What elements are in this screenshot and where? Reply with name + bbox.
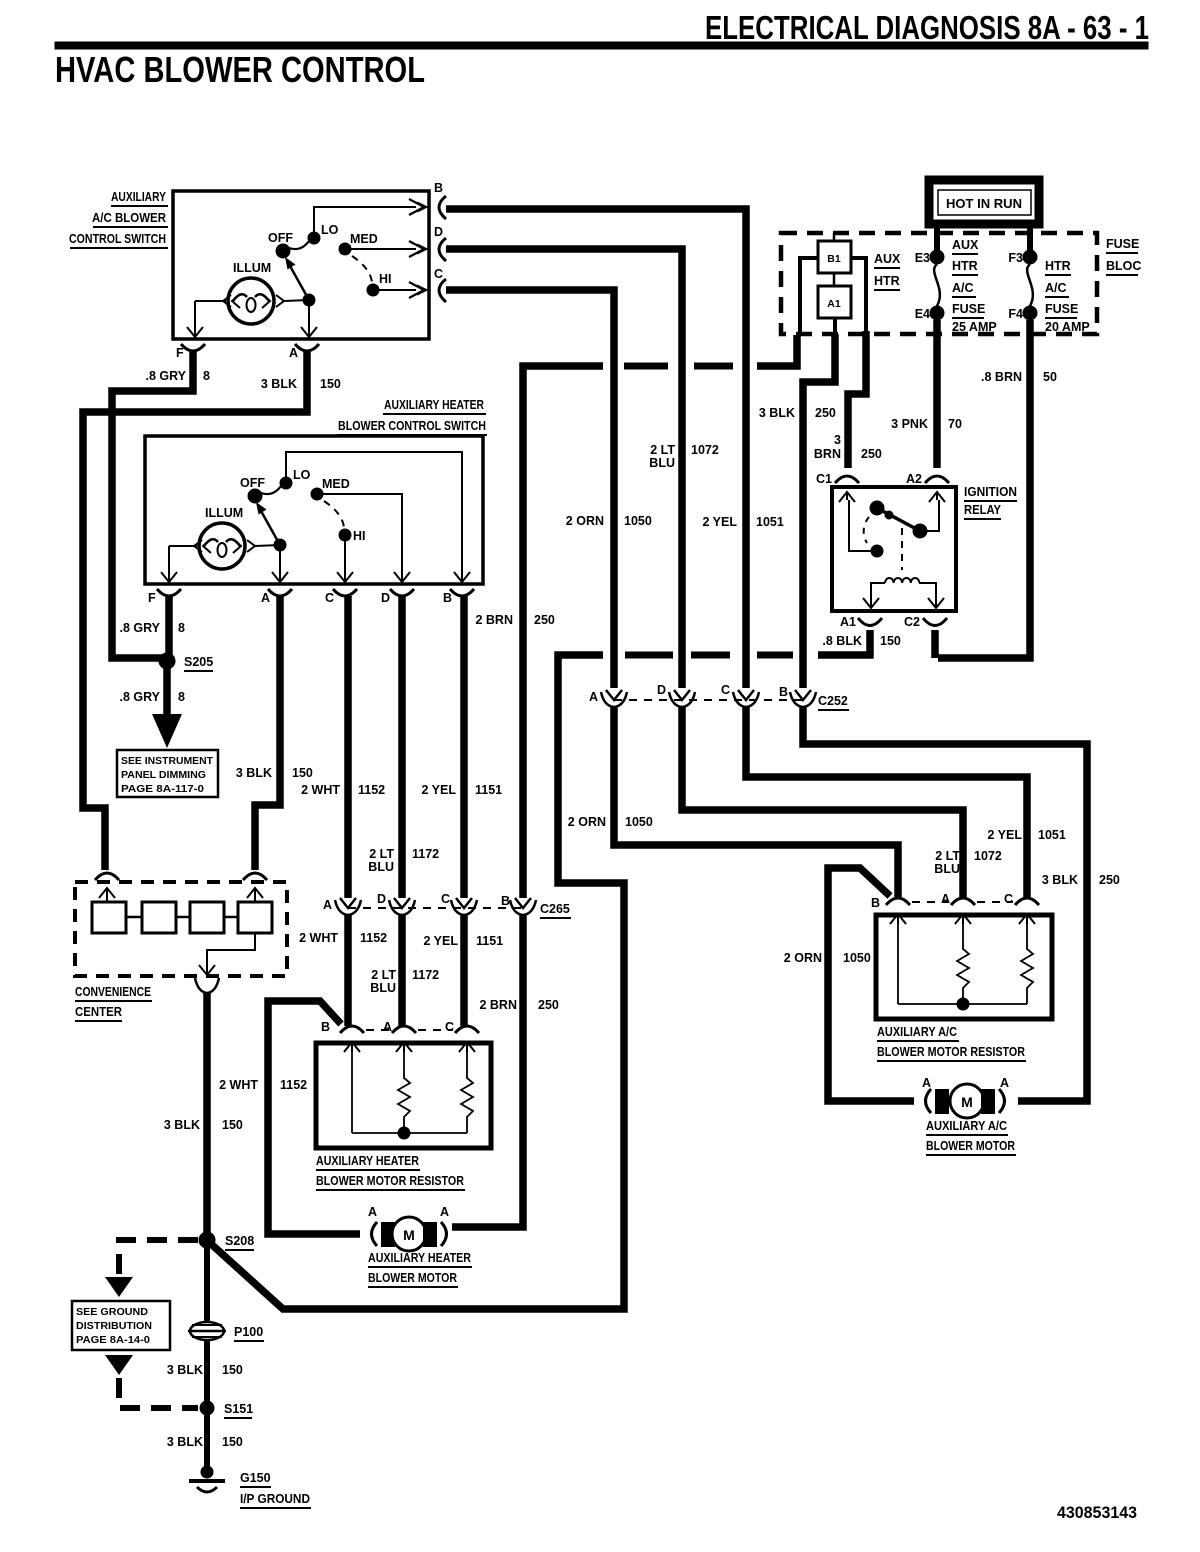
aux A/C resistor element A (zigzag) (957, 924, 969, 1004)
svg-text:.8 GRY: .8 GRY (119, 690, 160, 704)
svg-text:A: A (589, 690, 598, 704)
svg-text:HTR: HTR (952, 259, 978, 273)
svg-text:G150: G150 (240, 1471, 271, 1485)
svg-text:AUXILIARY HEATER: AUXILIARY HEATER (384, 398, 484, 412)
svg-text:C: C (721, 683, 730, 697)
svg-text:3 PNK: 3 PNK (891, 417, 928, 431)
svg-text:2 WHT: 2 WHT (301, 783, 340, 797)
svg-text:2 LT: 2 LT (369, 847, 394, 861)
svg-text:B: B (779, 685, 788, 699)
svg-text:3 BLK: 3 BLK (164, 1118, 200, 1132)
convenience center output lead (195, 933, 255, 993)
svg-text:250: 250 (534, 613, 555, 627)
label 3 BLK 150 (S1 A wire) (261, 377, 341, 391)
svg-text:150: 150 (292, 766, 313, 780)
convenience center dashed box (75, 882, 287, 976)
off-page arrow into ground distribution (105, 1277, 133, 1297)
svg-text:3 BLK: 3 BLK (759, 406, 795, 420)
label 2 ORN 1050 (motor feed) (784, 951, 871, 965)
wire LO to output B (314, 199, 426, 238)
connector C265 pin A (323, 898, 361, 915)
label 2 WHT 1152 (motor feed left) (219, 1078, 307, 1092)
svg-text:3 BLK: 3 BLK (167, 1363, 203, 1377)
svg-text:150: 150 (880, 634, 901, 648)
svg-text:1152: 1152 (358, 783, 385, 797)
connector C252 pin C (721, 683, 759, 707)
svg-text:2 WHT: 2 WHT (299, 931, 338, 945)
svg-text:CENTER: CENTER (75, 1005, 122, 1019)
svg-text:250: 250 (861, 447, 882, 461)
svg-text:AUX: AUX (952, 238, 979, 252)
svg-text:BLOWER MOTOR: BLOWER MOTOR (368, 1271, 457, 1285)
convenience center fuse element 1 (92, 902, 126, 933)
relay pin C2 connector (904, 615, 947, 629)
label 3 BRN 250 (814, 433, 882, 461)
label 2 WHT 1152 (below C265) (299, 931, 387, 945)
svg-text:8: 8 (178, 690, 185, 704)
relay coil (863, 578, 944, 608)
svg-text:A: A (941, 892, 950, 906)
svg-text:SEE GROUND: SEE GROUND (76, 1306, 148, 1318)
ignition relay box (832, 487, 956, 611)
wiper pivot junction (heater switch) (274, 539, 286, 551)
svg-text:AUXILIARY: AUXILIARY (111, 190, 167, 204)
wire branch aux A/C blower motor feed (2 ORN 1050) (828, 868, 914, 1101)
svg-text:A: A (440, 1205, 449, 1219)
aux A/C resistor element C (zigzag) (1021, 924, 1033, 1004)
aux A/C resistor pin C connector (1004, 892, 1039, 924)
svg-text:A: A (261, 591, 270, 605)
connector C252 pin D (657, 683, 695, 707)
grommet P100 (188, 1322, 264, 1341)
wiper arm arrow to OFF (heater switch) (256, 502, 280, 545)
part number 430853143 (1057, 1503, 1137, 1522)
svg-text:D: D (657, 683, 666, 697)
label 2 WHT 1152 (above C265) (301, 783, 385, 797)
svg-text:2 YEL: 2 YEL (702, 515, 737, 529)
relay dashed throw arc (864, 517, 869, 543)
wire HOT IN RUN to F3 (1027, 225, 1033, 252)
label 2 BRN 250 (below C265) (479, 998, 558, 1012)
heater resistor pin A connector (383, 1020, 416, 1052)
relay pin A2 connector (906, 472, 949, 502)
svg-text:1151: 1151 (475, 783, 502, 797)
svg-text:C: C (434, 267, 443, 281)
power feed HOT IN RUN box (929, 180, 1039, 224)
connector C252 dashed row (614, 694, 849, 710)
label 2 YEL 1151 (above C265) (421, 783, 502, 797)
svg-text:FUSE: FUSE (1045, 302, 1078, 316)
heater resistor pin B connector (321, 1020, 364, 1052)
wire C252-C to aux A/C resistor C (2 YEL 1051) (746, 707, 1027, 898)
heater resistor element B lead (351, 1052, 353, 1133)
wire LO to pin B (heater switch) (286, 452, 470, 584)
svg-text:AUX: AUX (874, 252, 901, 266)
connector C265 dashed row (348, 902, 571, 918)
svg-text:150: 150 (222, 1118, 243, 1132)
label .8 GRY 8 (heater F wire) (119, 621, 185, 635)
pin F arrow (aux A/C switch) (187, 327, 203, 339)
label 2 YEL 1051 (right) (987, 828, 1065, 842)
wire S208 to G150 (3 BLK 150) (204, 1240, 210, 1470)
lamp left lead wire (195, 295, 231, 330)
splice S151 (200, 1401, 253, 1418)
relay pin C1 connector (816, 472, 859, 502)
relay internal fixed contact from C1 (849, 500, 883, 557)
switch S1 label AUXILIARY A/C BLOWER CONTROL SWITCH (69, 190, 168, 248)
svg-text:ELECTRICAL DIAGNOSIS 8A - 63 -: ELECTRICAL DIAGNOSIS 8A - 63 - 1 (705, 9, 1149, 46)
svg-text:250: 250 (538, 998, 559, 1012)
wire convenience center to S208 (3 BLK 150) (203, 993, 211, 1240)
aux A/C resistor element B lead (897, 924, 899, 1004)
wire relay A1 ground (.8 BLK 150) dashed to S208 drop (210, 630, 870, 1309)
svg-text:M: M (961, 1094, 973, 1110)
svg-text:HTR: HTR (874, 274, 900, 288)
svg-text:3: 3 (834, 433, 841, 447)
svg-text:1152: 1152 (280, 1078, 307, 1092)
svg-text:FUSE: FUSE (1106, 237, 1139, 251)
svg-text:BLOC: BLOC (1106, 259, 1141, 273)
svg-text:BLOWER MOTOR RESISTOR: BLOWER MOTOR RESISTOR (877, 1045, 1025, 1059)
svg-text:C265: C265 (540, 902, 570, 916)
svg-text:1050: 1050 (843, 951, 871, 965)
svg-text:A: A (383, 1020, 392, 1034)
svg-text:MED: MED (322, 477, 350, 491)
wire C252-B to aux A/C motor return (3 BLK 250) (803, 707, 1087, 1101)
connector C265 pin D (377, 892, 415, 915)
wire C265-A to heater resistor B (2 WHT 1152) (344, 915, 352, 1026)
convenience center fuse element 3 (190, 902, 224, 933)
svg-text:PAGE 8A-117-0: PAGE 8A-117-0 (121, 783, 204, 795)
svg-text:B: B (871, 896, 880, 910)
wire A of S1 to convenience center (3 BLK 150) (83, 352, 307, 870)
B1 left stub into dashed ground wire (800, 258, 818, 333)
switch U1 aux A/C blower control switch box (173, 191, 429, 339)
wire HI to pin C (heater switch) (337, 535, 353, 584)
wire B of S1 to C252-C (2 YEL 1051) (446, 209, 746, 688)
fuse F3-F4 HTR A/C FUSE 20 AMP (1008, 250, 1089, 334)
aux A/C blower motor (922, 1076, 1009, 1118)
wire B1 to 2 BRN 250 drop (dashed run) (523, 335, 797, 898)
wire B of heater switch to C265-C (2 YEL 1151) (460, 596, 468, 898)
detent curve OFF-LO (289, 241, 309, 249)
connector C252 pin A (589, 690, 627, 707)
svg-text:BRN: BRN (814, 447, 841, 461)
svg-text:BLU: BLU (649, 456, 675, 470)
svg-text:.8 GRY: .8 GRY (119, 621, 160, 635)
fuse block dashed enclosure (781, 233, 1097, 334)
svg-text:70: 70 (948, 417, 962, 431)
label FUSE BLOC (1106, 237, 1141, 275)
wire C252-D to aux A/C resistor A (2 LT BLU 1072) (682, 707, 963, 898)
wire HOT IN RUN to E3 (934, 225, 940, 252)
svg-text:M: M (403, 1227, 415, 1243)
svg-text:HI: HI (353, 529, 366, 543)
contact HI (heater switch) (339, 529, 366, 543)
label 3 BLK 150 (heater A wire) (236, 766, 313, 780)
svg-text:1172: 1172 (412, 968, 439, 982)
wire D of S1 to C252-D (2 LT BLU 1072) (446, 249, 682, 688)
svg-text:2 ORN: 2 ORN (784, 951, 822, 965)
pin A connector (heater switch) (261, 589, 292, 605)
label 3 BLK 150 (S151-G150) (167, 1435, 243, 1449)
svg-text:20 AMP: 20 AMP (1045, 320, 1090, 334)
label .8 BLK 150 (relay A1 wire) (822, 634, 900, 648)
svg-text:B: B (443, 591, 452, 605)
svg-text:.8 GRY: .8 GRY (145, 369, 186, 383)
svg-text:BLOWER MOTOR RESISTOR: BLOWER MOTOR RESISTOR (316, 1174, 464, 1188)
svg-text:E3: E3 (915, 251, 930, 265)
label IGNITION RELAY (964, 485, 1017, 519)
svg-text:1152: 1152 (360, 931, 387, 945)
svg-text:BLU: BLU (934, 862, 960, 876)
svg-text:S151: S151 (224, 1402, 253, 1416)
link B1-A1 (833, 233, 836, 286)
svg-text:OFF: OFF (268, 231, 293, 245)
svg-text:A/C: A/C (1045, 281, 1067, 295)
svg-text:250: 250 (1099, 873, 1120, 887)
svg-text:BLOWER MOTOR: BLOWER MOTOR (926, 1139, 1015, 1153)
svg-text:150: 150 (320, 377, 341, 391)
contact HI (aux A/C switch) (367, 272, 392, 296)
svg-text:2 YEL: 2 YEL (423, 934, 458, 948)
page header title (705, 9, 1149, 46)
splice S208 (199, 1232, 254, 1250)
label .8 GRY 8 (below S205) (119, 690, 185, 704)
aux A/C resistor pin A connector (941, 892, 975, 924)
off-page arrow to panel dimming (152, 714, 182, 748)
relay internal common contact (870, 500, 939, 538)
svg-text:A/C: A/C (952, 281, 974, 295)
svg-text:IGNITION: IGNITION (964, 485, 1017, 499)
connector C265 pin C (441, 892, 477, 915)
pin F connector (heater switch) (148, 589, 181, 605)
svg-text:AUXILIARY HEATER: AUXILIARY HEATER (368, 1251, 471, 1265)
wiper arm arrow to OFF (285, 257, 309, 300)
svg-text:C2: C2 (904, 615, 920, 629)
svg-text:A1: A1 (827, 298, 841, 310)
wire MED to output D (345, 241, 426, 257)
wire A of heater switch to convenience center (3 BLK 150) (255, 596, 280, 870)
wire relay C2 stub (931, 630, 939, 658)
lamp ILLUM (aux A/C switch) (228, 261, 274, 324)
contact OFF (heater switch) (240, 476, 265, 503)
svg-text:A: A (323, 898, 332, 912)
wire E4 to relay A2 (3 PNK 70) (933, 320, 941, 468)
heater resistor common bus (352, 1127, 467, 1139)
svg-text:3 BLK: 3 BLK (167, 1435, 203, 1449)
svg-text:OFF: OFF (240, 476, 265, 490)
wire C of heater switch to C265-A (2 WHT 1152) (344, 596, 352, 898)
wire branch heater blower motor feed (2 WHT 1152) (268, 1001, 360, 1234)
wire C265-B to heater motor return (2 BRN 250) (452, 915, 523, 1227)
label 2 LT BLU 1172 (below C265) (370, 968, 439, 995)
svg-text:AUXILIARY HEATER: AUXILIARY HEATER (316, 1154, 419, 1168)
convenience center input pin 2 connector (243, 873, 267, 902)
svg-text:AUXILIARY A/C: AUXILIARY A/C (877, 1025, 957, 1039)
pin C connector (aux A/C switch) (434, 267, 446, 302)
svg-text:A: A (289, 346, 298, 360)
svg-text:1072: 1072 (691, 443, 719, 457)
wire MED to pin D (heater switch) (317, 494, 410, 584)
svg-text:430853143: 430853143 (1057, 1503, 1137, 1522)
svg-text:AUXILIARY A/C: AUXILIARY A/C (926, 1119, 1007, 1133)
pin F connector (aux A/C switch) (176, 344, 205, 360)
label .8 GRY 8 (S1 F wire) (145, 369, 210, 383)
contact MED (heater switch) (311, 477, 350, 500)
detent curve OFF-LO (heater switch) (261, 486, 281, 494)
connector C265 pin B (501, 894, 536, 915)
label 2 YEL 1151 (below C265) (423, 934, 503, 948)
svg-text:HVAC BLOWER CONTROL: HVAC BLOWER CONTROL (55, 49, 425, 90)
svg-text:A: A (368, 1205, 377, 1219)
svg-text:D: D (377, 892, 386, 906)
pin B connector (heater switch) (443, 589, 474, 605)
aux A/C resistor pin B connector (871, 896, 910, 924)
svg-text:BLU: BLU (370, 981, 396, 995)
aux heater blower motor resistor box (316, 1043, 491, 1148)
label 2 BRN 250 (fuse block drop) (475, 613, 554, 627)
label 3 BLK 150 (to S208) (164, 1118, 243, 1132)
wiper arm pivot junction (303, 294, 315, 306)
svg-text:E4: E4 (915, 307, 930, 321)
svg-text:C: C (445, 1020, 454, 1034)
svg-text:2 LT: 2 LT (935, 849, 960, 863)
svg-text:FUSE: FUSE (952, 302, 985, 316)
svg-text:25 AMP: 25 AMP (952, 320, 997, 334)
header rule (55, 42, 1148, 49)
svg-text:A: A (1000, 1076, 1009, 1090)
wire HI to output C (373, 282, 426, 298)
dashed wire S208 to ground distribution (119, 1240, 198, 1277)
svg-text:1151: 1151 (476, 934, 503, 948)
svg-text:A2: A2 (906, 472, 922, 486)
contact MED (aux A/C switch) (339, 232, 378, 255)
pin A lead (aux A/C switch) (301, 300, 317, 339)
svg-text:RELAY: RELAY (964, 503, 1002, 517)
heater resistor dashed pin row (366, 1029, 453, 1031)
svg-text:BLOWER CONTROL SWITCH: BLOWER CONTROL SWITCH (338, 419, 486, 433)
svg-text:HTR: HTR (1045, 259, 1071, 273)
svg-text:B1: B1 (827, 253, 841, 265)
svg-text:A/C BLOWER: A/C BLOWER (92, 211, 166, 225)
lamp right lead to pivot (276, 295, 309, 307)
svg-text:F: F (148, 591, 156, 605)
svg-text:ILLUM: ILLUM (205, 506, 243, 520)
svg-text:2 WHT: 2 WHT (219, 1078, 258, 1092)
svg-text:2 YEL: 2 YEL (987, 828, 1022, 842)
svg-text:P100: P100 (234, 1325, 263, 1339)
aux A/C blower motor resistor box (876, 915, 1052, 1019)
note box SEE INSTRUMENT PANEL DIMMING PAGE 8A-117-0 (117, 750, 218, 797)
lamp ILLUM (heater switch) (199, 506, 245, 569)
convenience center fuse element 4 (238, 902, 272, 933)
svg-text:8: 8 (203, 369, 210, 383)
pin D connector (heater switch) (381, 589, 414, 605)
svg-text:8: 8 (178, 621, 185, 635)
svg-text:2 ORN: 2 ORN (568, 815, 606, 829)
label AUXILIARY HEATER BLOWER MOTOR RESISTOR (316, 1154, 465, 1190)
svg-text:D: D (381, 591, 390, 605)
svg-text:S205: S205 (184, 655, 213, 669)
svg-text:SEE INSTRUMENT: SEE INSTRUMENT (121, 755, 214, 767)
svg-text:2 ORN: 2 ORN (566, 514, 604, 528)
label .8 BRN 50 (981, 370, 1057, 384)
svg-text:3 BLK: 3 BLK (236, 766, 272, 780)
wire S205 to instrument panel dimming (.8 GRY 8) (163, 661, 171, 714)
wire C265-D to heater resistor A (2 LT BLU 1172) (398, 915, 406, 1026)
contact LO (heater switch) (280, 468, 311, 489)
pin A lead (heater switch) (272, 545, 288, 584)
heater resistor element A (zigzag) (398, 1052, 410, 1133)
aux A/C resistor common bus (898, 998, 1027, 1010)
svg-text:150: 150 (222, 1435, 243, 1449)
svg-text:PAGE 8A-14-0: PAGE 8A-14-0 (76, 1334, 150, 1346)
svg-text:1050: 1050 (625, 815, 653, 829)
wire C252-A to aux A/C resistor B (2 ORN 1050) (614, 707, 898, 898)
heater resistor pin C connector (445, 1020, 479, 1052)
svg-text:A: A (922, 1076, 931, 1090)
contact OFF (aux A/C switch) (268, 231, 293, 258)
dashed throw MED-HI (heater switch) (324, 501, 344, 527)
label AUX HTR (breaker) (874, 252, 901, 290)
svg-text:CONTROL SWITCH: CONTROL SWITCH (69, 232, 166, 246)
wire A1 breaker to C252-B (3 BLK 250) (803, 318, 835, 688)
svg-text:2 LT: 2 LT (371, 968, 396, 982)
svg-text:PANEL DIMMING: PANEL DIMMING (121, 769, 206, 781)
svg-text:2 YEL: 2 YEL (421, 783, 456, 797)
label CONVENIENCE CENTER (75, 985, 152, 1021)
heater resistor element C (zigzag) (461, 1052, 473, 1133)
svg-text:LO: LO (293, 468, 311, 482)
svg-text:C: C (441, 892, 450, 906)
label AUXILIARY A/C BLOWER MOTOR RESISTOR (877, 1025, 1026, 1061)
svg-text:B: B (501, 894, 510, 908)
svg-text:1072: 1072 (974, 849, 1002, 863)
svg-text:3 BLK: 3 BLK (1042, 873, 1078, 887)
svg-text:LO: LO (321, 223, 339, 237)
svg-text:C: C (1004, 892, 1013, 906)
svg-text:S208: S208 (225, 1234, 254, 1248)
label 3 BLK 250 (right) (1042, 873, 1120, 887)
pin F arrow (heater switch) (161, 572, 177, 584)
svg-text:250: 250 (815, 406, 836, 420)
lamp left lead (heater switch) (169, 540, 202, 575)
label 2 LT BLU 1172 (above C265) (368, 847, 439, 874)
svg-text:F4: F4 (1008, 307, 1023, 321)
circuit breaker B1 box (818, 241, 851, 273)
wire F of heater switch to S205 (.8 GRY 8) (165, 596, 173, 658)
wire D of heater switch to C265-D (2 LT BLU 1172) (398, 596, 406, 898)
convenience center bus links (126, 916, 238, 919)
label 2 ORN 1050 (566, 514, 652, 528)
svg-text:HI: HI (379, 272, 392, 286)
svg-text:2 BRN: 2 BRN (479, 998, 517, 1012)
label 3 BLK 250 (A1 drop) (759, 406, 836, 420)
svg-text:B: B (434, 181, 443, 195)
fuse E3-E4 AUX HTR A/C FUSE 25 AMP (915, 238, 997, 334)
aux A/C resistor dashed pin row (912, 901, 1013, 903)
connector C252 pin B (779, 685, 816, 707)
svg-text:CONVENIENCE: CONVENIENCE (75, 985, 151, 999)
svg-text:HOT IN RUN: HOT IN RUN (946, 196, 1022, 211)
wire C of S1 to C252-A (2 ORN 1050) (446, 290, 614, 688)
label AUXILIARY HEATER BLOWER MOTOR (368, 1251, 472, 1287)
svg-text:1172: 1172 (412, 847, 439, 861)
relay pin A1 connector (840, 615, 882, 629)
label 2 YEL 1051 (702, 515, 783, 529)
svg-text:1051: 1051 (1038, 828, 1066, 842)
